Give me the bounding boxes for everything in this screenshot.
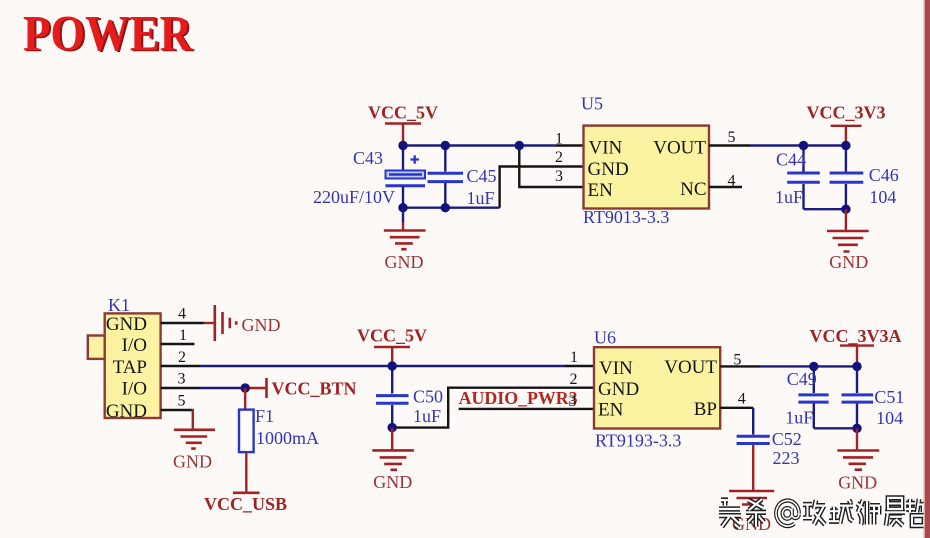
power flag VCC_BTN xyxy=(267,378,357,399)
fuse F1 xyxy=(239,388,254,493)
pin 5 stub VOUT xyxy=(709,144,750,146)
capacitor C43 xyxy=(386,146,426,208)
svg-text:VCC_5V: VCC_5V xyxy=(368,103,438,123)
power flag VCC_3V3 xyxy=(807,103,886,146)
svg-text:GND: GND xyxy=(829,252,868,272)
wire TAP to U6 VIN xyxy=(200,365,565,367)
svg-text:GND: GND xyxy=(106,401,147,422)
wire pin3 to VCC_BTN xyxy=(245,387,266,389)
power flag VCC_USB xyxy=(204,493,287,514)
pin 5 stub VOUT U6 xyxy=(720,365,760,367)
pin 3 stub xyxy=(161,387,200,389)
capacitor C51 xyxy=(842,366,874,428)
svg-text:4: 4 xyxy=(738,391,746,408)
svg-text:VCC_5V: VCC_5V xyxy=(357,326,427,346)
ground under pin 5 xyxy=(173,430,215,472)
capacitor C46 xyxy=(830,146,864,210)
svg-text:VOUT: VOUT xyxy=(664,357,717,378)
svg-text:GND: GND xyxy=(242,315,281,335)
wire EN net xyxy=(459,408,594,410)
svg-text:TAP: TAP xyxy=(113,357,147,378)
svg-text:GND: GND xyxy=(598,379,639,400)
wire VCC_5V rail to U5 VIN xyxy=(403,144,556,146)
svg-text:C46: C46 xyxy=(869,165,899,185)
svg-text:C50: C50 xyxy=(413,387,443,407)
svg-text:C52: C52 xyxy=(772,429,802,449)
svg-text:VCC_3V3: VCC_3V3 xyxy=(807,103,886,123)
svg-text:VIN: VIN xyxy=(589,138,623,159)
ground under C51 xyxy=(837,428,879,492)
svg-text:1: 1 xyxy=(555,131,563,148)
svg-text:VOUT: VOUT xyxy=(653,138,706,159)
capacitor C44 xyxy=(787,146,820,210)
svg-text:C44: C44 xyxy=(776,150,806,170)
svg-text:GND: GND xyxy=(838,473,877,493)
svg-text:1: 1 xyxy=(179,327,187,344)
junction dots bottom left xyxy=(388,361,397,432)
svg-text:VIN: VIN xyxy=(599,358,633,379)
svg-text:4: 4 xyxy=(728,172,736,189)
svg-text:2: 2 xyxy=(178,349,186,366)
wire ground rail xyxy=(403,206,500,208)
svg-text:223: 223 xyxy=(773,448,800,468)
junction dots top rail xyxy=(398,141,524,213)
wire pin1 stub U6 xyxy=(565,365,594,367)
svg-text:VCC_BTN: VCC_BTN xyxy=(272,379,357,399)
junction dots bottom right xyxy=(809,362,862,433)
svg-text:VCC_3V3A: VCC_3V3A xyxy=(810,326,902,346)
svg-text:VCC_USB: VCC_USB xyxy=(204,494,287,514)
svg-text:3: 3 xyxy=(178,371,186,388)
wire ground rail bottom right xyxy=(814,427,857,429)
svg-text:C49: C49 xyxy=(787,369,817,389)
watermark @ xyxy=(776,501,799,527)
svg-text:2: 2 xyxy=(555,149,563,166)
svg-text:1uF: 1uF xyxy=(785,408,813,428)
capacitor C50 xyxy=(376,366,409,428)
pin 4 stub xyxy=(161,322,204,324)
svg-text:NC: NC xyxy=(680,179,706,200)
capacitor C52 xyxy=(737,408,770,491)
ground under C43 xyxy=(384,208,426,272)
capacitor C45 xyxy=(428,146,464,208)
pin 2 stub TAP xyxy=(161,365,200,367)
svg-text:GND: GND xyxy=(173,452,212,472)
svg-text:U5: U5 xyxy=(581,94,603,114)
power flag VCC_5V (bottom) xyxy=(357,326,427,367)
svg-text:GND: GND xyxy=(385,252,424,272)
svg-text:GND: GND xyxy=(106,314,147,335)
wire EN tie to VIN rail xyxy=(519,146,583,188)
sheet border right xyxy=(925,0,930,538)
pin 4 stub BP xyxy=(720,407,753,409)
svg-text:3: 3 xyxy=(569,393,577,410)
svg-text:C43: C43 xyxy=(353,148,383,168)
svg-text:1uF: 1uF xyxy=(413,406,441,426)
wire ground rail right xyxy=(804,208,846,210)
ground under C52 xyxy=(729,491,774,534)
svg-text:104: 104 xyxy=(876,408,903,428)
svg-text:AUDIO_PWR3: AUDIO_PWR3 xyxy=(459,388,578,408)
svg-text:C51: C51 xyxy=(874,387,904,407)
svg-text:5: 5 xyxy=(178,393,186,410)
svg-text:RT9193-3.3: RT9193-3.3 xyxy=(595,431,681,451)
svg-text:K1: K1 xyxy=(108,295,130,315)
ground under C46 xyxy=(827,209,869,272)
pin 1 stub xyxy=(161,343,195,345)
pin 5 stub xyxy=(161,409,193,411)
svg-text:3: 3 xyxy=(555,168,563,185)
ground under C50 xyxy=(372,428,414,492)
svg-text:EN: EN xyxy=(598,400,624,421)
regulator U5 xyxy=(584,126,710,209)
svg-text:I/O: I/O xyxy=(122,335,147,356)
svg-text:1: 1 xyxy=(570,349,578,366)
svg-text:1000mA: 1000mA xyxy=(256,428,319,448)
connector K1 xyxy=(88,313,161,422)
ground right of pin 4 (rotated) xyxy=(204,305,281,341)
pin 4 stub NC xyxy=(709,186,742,188)
svg-text:5: 5 xyxy=(728,129,736,146)
power flag VCC_5V xyxy=(368,103,438,146)
wire GND pin branch U6 xyxy=(392,388,594,428)
junction dots right xyxy=(799,141,851,214)
title POWER xyxy=(23,7,195,64)
svg-text:2: 2 xyxy=(570,371,578,388)
wire VOUT to VCC_3V3A xyxy=(760,365,857,367)
svg-text:U6: U6 xyxy=(594,327,616,347)
svg-text:4: 4 xyxy=(178,306,186,323)
svg-text:GND: GND xyxy=(588,159,629,180)
wire pin1 stub xyxy=(556,144,584,146)
svg-text:1uF: 1uF xyxy=(775,187,803,207)
svg-text:1uF: 1uF xyxy=(467,188,495,208)
svg-text:BP: BP xyxy=(694,399,717,420)
svg-text:F1: F1 xyxy=(255,406,274,426)
svg-text:C45: C45 xyxy=(467,166,497,186)
watermark 头条@攻城狮晨哲 xyxy=(719,498,928,528)
svg-text:EN: EN xyxy=(588,180,614,201)
regulator U6 xyxy=(594,347,720,428)
svg-text:220uF/10V: 220uF/10V xyxy=(313,187,395,207)
power flag VCC_3V3A xyxy=(810,326,902,366)
wire VOUT to VCC_3V3 xyxy=(750,144,846,146)
svg-text:GND: GND xyxy=(373,472,412,492)
svg-text:RT9013-3.3: RT9013-3.3 xyxy=(583,207,669,227)
svg-text:I/O: I/O xyxy=(122,379,147,400)
wire GND pin branch xyxy=(500,167,584,208)
svg-text:5: 5 xyxy=(733,352,741,369)
capacitor C49 xyxy=(798,366,828,428)
svg-text:POWER: POWER xyxy=(23,7,193,63)
junction pin3/F1 xyxy=(241,383,250,392)
svg-text:104: 104 xyxy=(869,187,896,207)
